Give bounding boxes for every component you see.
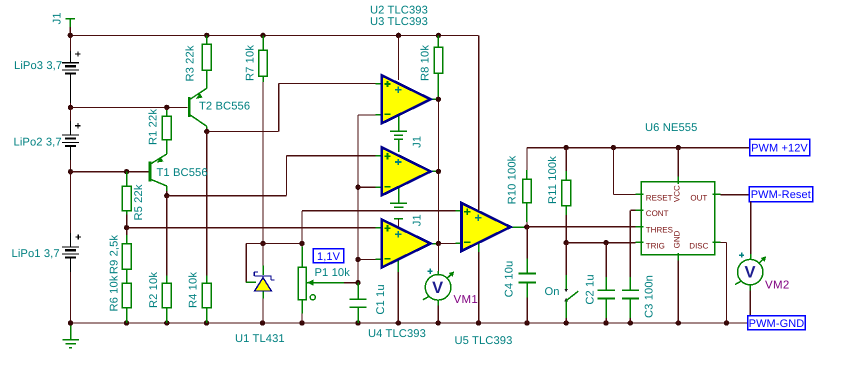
svg-text:V: V <box>744 264 755 282</box>
resistor R2 10k <box>166 276 168 284</box>
wire U5 out to THRES <box>527 226 636 228</box>
svg-text:U4 TLC393: U4 TLC393 <box>368 328 426 340</box>
wire GND pin to rail <box>677 261 679 324</box>
node U5 out / R10 / C4 <box>524 224 529 229</box>
node U3 minus <box>355 185 360 190</box>
node R11 top <box>564 145 569 150</box>
svg-text:P1 10k: P1 10k <box>315 267 351 279</box>
resistor R4 10k <box>206 276 208 284</box>
wire U4 minus <box>358 258 376 260</box>
wire reference net vertical <box>357 115 359 283</box>
TL431 U1 <box>262 243 264 265</box>
op-amp U5 TLC393 <box>456 203 527 252</box>
svg-text:R7 10k: R7 10k <box>245 45 257 81</box>
node top rail / U2 power <box>396 33 401 38</box>
wire LiPo1 to bottom rail <box>70 272 72 323</box>
wire output net down to VM1 <box>437 243 439 271</box>
wire top rail <box>70 34 478 36</box>
svg-text:U3 TLC393: U3 TLC393 <box>370 16 428 28</box>
resistor R8 10k <box>437 35 439 47</box>
svg-text:On: On <box>545 286 560 298</box>
node battery junction LiPo3/LiPo2 <box>68 105 73 110</box>
node R1 top on T2 base wire <box>164 105 169 110</box>
potentiometer P1 10k <box>301 243 303 246</box>
svg-text:U6 NE555: U6 NE555 <box>645 122 697 134</box>
resistor R3 22k <box>206 35 208 44</box>
node T1 collector <box>164 193 169 198</box>
wire PWM +12V net <box>527 147 750 149</box>
node top rail / R7 <box>260 33 265 38</box>
svg-text:R1 22k: R1 22k <box>148 109 160 145</box>
capacitor C1 1u <box>357 283 359 300</box>
svg-text:1,1V: 1,1V <box>317 251 341 263</box>
svg-text:LiPo2 3,7: LiPo2 3,7 <box>14 137 62 149</box>
ground (main, bottom-left) <box>62 323 79 348</box>
wire P1 wiper to reference net <box>344 282 358 284</box>
switch On <box>565 243 567 275</box>
node C2 top <box>603 240 608 245</box>
svg-text:U5 TLC393: U5 TLC393 <box>455 335 513 347</box>
port box PWM-GND <box>748 316 806 330</box>
svg-text:C4 10u: C4 10u <box>504 261 516 298</box>
node P1 top <box>299 241 304 246</box>
wire T2 collector down to R4 <box>206 132 208 276</box>
ground under U2 <box>390 131 407 135</box>
svg-text:R10 100k: R10 100k <box>507 155 519 204</box>
svg-text:C3 100n: C3 100n <box>644 275 656 318</box>
svg-text:R3 22k: R3 22k <box>185 45 197 81</box>
node T2 collector <box>204 129 209 134</box>
wire CONT <box>630 209 635 211</box>
voltmeter VM2 <box>750 254 752 260</box>
svg-text:PWM +12V: PWM +12V <box>751 143 808 155</box>
svg-text:TRIG: TRIG <box>646 241 665 250</box>
wire to U5 minus <box>438 242 455 244</box>
capacitor C4 10u <box>526 227 528 259</box>
battery LiPo3 3,7 <box>62 51 81 103</box>
wire divider down to R9 <box>126 228 128 235</box>
node R7 / TL431 / P1 <box>260 241 265 246</box>
node R11 bottom / TRIG <box>564 240 569 245</box>
svg-text:U1 TL431: U1 TL431 <box>235 333 285 345</box>
voltmeter VM1 <box>437 271 439 275</box>
svg-text:J1: J1 <box>412 214 424 226</box>
wire T1 base net <box>71 171 149 173</box>
node VCC drop <box>676 145 681 150</box>
svg-text:VCC: VCC <box>673 185 682 202</box>
node RESET drop <box>611 145 616 150</box>
wire T1 collector down to R2 <box>166 196 168 276</box>
svg-text:R8 10k: R8 10k <box>420 45 432 81</box>
value box 1,1V <box>313 249 343 263</box>
svg-text:J1: J1 <box>411 136 423 148</box>
svg-text:V: V <box>432 279 443 297</box>
svg-text:DISC: DISC <box>689 241 708 250</box>
node R5 top on T1 base wire <box>124 169 129 174</box>
port box PWM +12V <box>750 139 810 156</box>
wire T2 collector to U2+ corner <box>207 131 279 133</box>
node top rail / battery + <box>68 33 73 38</box>
resistor R9 2,5k <box>126 235 128 244</box>
svg-text:R4 10k: R4 10k <box>188 272 200 308</box>
svg-text:R5 22k: R5 22k <box>133 184 145 220</box>
wire VCC <box>677 148 679 177</box>
svg-text:J1: J1 <box>52 12 64 24</box>
node wiper/C1 <box>355 280 360 285</box>
wire battery mid1 <box>70 103 72 107</box>
svg-text:R9 2,5k: R9 2,5k <box>109 235 121 275</box>
wire U2 minus <box>358 114 376 116</box>
battery LiPo1 3,7 <box>62 233 81 272</box>
resistor R7 10k <box>262 35 264 50</box>
wire DISC to rail <box>721 241 727 243</box>
node U5 minus <box>436 241 441 246</box>
wire T1 collector to junction <box>166 191 168 196</box>
svg-text:GND: GND <box>673 230 682 248</box>
resistor R11 100k <box>565 148 567 171</box>
wire U5 bottom power to rail <box>478 252 480 323</box>
wire divider to U4+ <box>127 227 376 229</box>
wire T2 base net <box>71 106 188 108</box>
wire R7 net vertical <box>262 82 264 243</box>
node battery junction LiPo2/LiPo1 <box>68 169 73 174</box>
wire TRIG net <box>566 242 635 244</box>
capacitor C2 1u <box>605 243 607 277</box>
svg-text:R6 10k: R6 10k <box>109 275 121 311</box>
svg-text:U2 TLC393: U2 TLC393 <box>370 5 428 17</box>
wire U3 minus <box>358 186 376 188</box>
resistor R10 100k <box>526 170 528 179</box>
wire R5 to divider node <box>126 215 128 228</box>
svg-text:PWM-GND: PWM-GND <box>749 318 805 330</box>
battery LiPo2 3,7 <box>62 121 81 160</box>
svg-text:CONT: CONT <box>646 209 669 218</box>
resistor R5 22k <box>126 172 128 186</box>
node rail dots <box>68 320 729 325</box>
wire P1 node up and right to U5+ <box>301 211 303 244</box>
node top rail / R8 <box>436 33 441 38</box>
node R5/R9 divider <box>124 225 129 230</box>
wire comparator output net <box>437 99 439 243</box>
node top rail / R3 <box>204 33 209 38</box>
op-amp U4 TLC393 <box>376 220 439 273</box>
svg-text:PWM-Reset: PWM-Reset <box>751 189 811 201</box>
node U2 out <box>436 97 441 102</box>
wire T2 collector to junction <box>206 129 208 132</box>
svg-text:LiPo1 3,7: LiPo1 3,7 <box>12 248 60 260</box>
transistor T2 BC556 <box>189 88 206 128</box>
port box PWM-Reset <box>749 187 812 202</box>
wire to T1 base junction <box>70 160 72 172</box>
wire T1 collector to U3+ <box>167 195 287 197</box>
svg-text:C1 1u: C1 1u <box>375 284 387 314</box>
svg-text:R2 10k: R2 10k <box>148 272 160 308</box>
wire down to LiPo1 <box>70 172 72 233</box>
svg-text:LiPo3 3,7: LiPo3 3,7 <box>14 60 62 72</box>
wire TL431 ref bend <box>246 242 263 244</box>
svg-text:C2 1u: C2 1u <box>585 274 597 304</box>
svg-text:T1 BC556: T1 BC556 <box>157 167 208 179</box>
power flag J1 above U4 <box>394 218 403 220</box>
connector pin J1 (top-left flag) <box>66 19 75 27</box>
wire J1 stub to top rail <box>69 27 71 35</box>
op-amp U3 TLC393 <box>376 147 439 203</box>
power flag J1 above U3 <box>394 139 403 152</box>
transistor T1 BC556 <box>150 154 167 191</box>
resistor R1 22k <box>166 107 168 110</box>
svg-text:THRES: THRES <box>646 225 673 234</box>
svg-text:VM2: VM2 <box>765 280 790 292</box>
resistor R6 10k <box>122 283 131 308</box>
wire U5 top power from rail <box>478 35 480 210</box>
svg-text:RESET: RESET <box>646 193 673 202</box>
capacitor C3 100n <box>629 210 631 277</box>
svg-text:VM1: VM1 <box>454 294 479 306</box>
ground under U3 <box>390 203 407 207</box>
wire node to P1 top <box>263 242 302 244</box>
op-amp U2 TLC393 <box>376 75 439 131</box>
wire PWM-Reset down to VM2 <box>750 202 752 254</box>
svg-text:R11 100k: R11 100k <box>547 156 559 204</box>
node U3 out <box>436 169 441 174</box>
node U4 minus <box>355 257 360 262</box>
wire below junction to LiPo2 <box>70 107 72 121</box>
wire bottom rail <box>71 322 748 324</box>
svg-text:T2 BC556: T2 BC556 <box>199 101 250 113</box>
wire U4 power to rail <box>397 272 399 323</box>
wire battery column top <box>70 35 72 50</box>
IC U6 NE555 <box>641 182 715 255</box>
svg-text:OUT: OUT <box>690 193 707 202</box>
wire RESET <box>612 148 614 195</box>
wire OUT to PWM-Reset <box>721 194 750 196</box>
wire U2 power from rail <box>398 35 400 80</box>
